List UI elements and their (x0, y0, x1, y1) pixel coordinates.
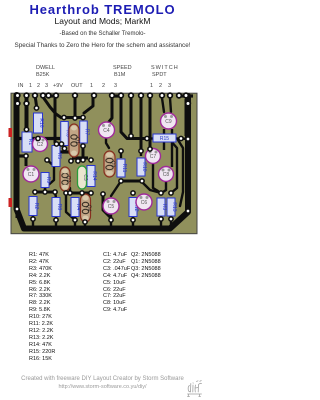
svg-text:C4: C4 (103, 128, 110, 134)
svg-text:R16: R16 (38, 118, 44, 127)
svg-text:R13: R13 (171, 202, 177, 211)
svg-text:Q2: Q2 (65, 176, 71, 183)
svg-text:Q4: Q4 (86, 205, 92, 212)
svg-text:R15: R15 (160, 136, 169, 142)
svg-text:Q1: Q1 (74, 137, 80, 144)
svg-text:R11: R11 (121, 164, 127, 173)
svg-text:C9: C9 (165, 119, 172, 125)
svg-text:C5: C5 (108, 204, 115, 210)
svg-text:C2: C2 (37, 142, 44, 148)
svg-text:C8: C8 (163, 172, 170, 178)
svg-text:R14: R14 (91, 171, 97, 180)
svg-text:R10: R10 (141, 162, 147, 171)
svg-text:C3: C3 (82, 174, 88, 181)
svg-text:R5: R5 (56, 153, 62, 160)
svg-text:R3: R3 (161, 204, 167, 211)
svg-text:R7: R7 (84, 129, 90, 136)
svg-text:R8: R8 (56, 204, 62, 211)
svg-text:C6: C6 (141, 200, 148, 206)
svg-text:R2: R2 (33, 203, 39, 210)
svg-text:R9: R9 (45, 177, 51, 184)
svg-text:C1: C1 (28, 172, 35, 178)
svg-text:Q3: Q3 (110, 161, 116, 168)
svg-text:C7: C7 (150, 154, 157, 160)
